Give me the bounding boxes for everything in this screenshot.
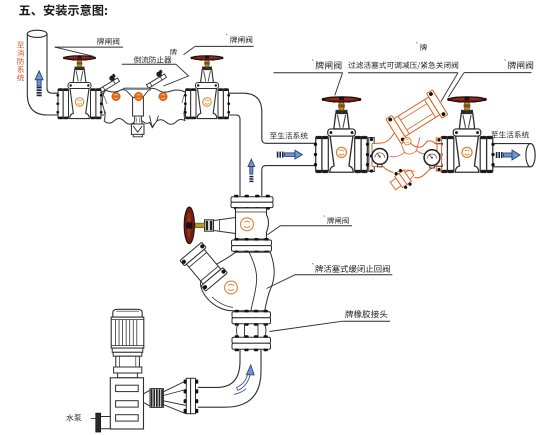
pipe: elbow to pump [198,350,261,408]
pipe: fire-system riser & elbow [27,34,59,115]
pump flange pair [186,378,190,413]
V5 bonnet cone [214,218,236,234]
label: 牌闸阀 (V3) [316,61,324,69]
pipe: fire line stubs [100,93,189,115]
pump outlet coupling [150,389,163,408]
label: 水泵 [66,414,73,421]
rubber joint bellows [237,324,267,337]
flow arrow up (riser) [35,71,43,96]
label: 至生活系统 (right) [491,132,498,138]
title text 五、安装示意图: [19,5,30,15]
pump spacer [116,356,140,367]
PRV drain fitting [387,164,418,194]
label: 牌闸阀 (V1) [97,38,104,45]
label: 牌活塞式缓闭止回阀 [315,265,323,273]
label: 牌闸阀 (V2) [230,36,237,43]
pump neck [118,373,138,378]
V5 logo [241,218,254,231]
flow arrow up (middle riser) [248,159,255,181]
PRV inner lines (orange) [382,137,430,173]
backflow preventer shading [104,95,186,114]
label: 牌橡胶接头 [345,310,353,318]
logo dot 1 [112,92,120,100]
test cock left [97,73,120,92]
V5 stem [196,223,205,227]
pipe: elbow down & riser to pump line [229,93,317,196]
label: 牌闸阀 (V5) [327,217,334,224]
pump band [114,367,142,373]
flow arrow right (outlet) [497,150,520,160]
backflow preventer body [102,88,186,127]
gate valve V4 [439,97,494,173]
label: 牌 倒流防止器 [170,49,177,56]
label: 过滤活塞式可调减压/紧急关闭阀 [348,62,355,69]
label: 至消防系统 (red, vertical) [17,42,24,48]
relief funnel [124,88,150,90]
relief bottom [133,134,142,136]
check valve body [200,252,274,311]
gate valve V2 [184,56,230,120]
V5 handwheel [184,207,194,244]
flow arrow right (branch) [278,150,303,159]
gate valve V1 [56,56,102,120]
gate valve V3 [314,97,369,173]
relief pipe [133,98,144,117]
check valve bonnet [180,242,227,291]
pump motor body [111,317,144,348]
pipe behind gauges [374,144,443,167]
label: 牌闸阀 (V4) [508,61,516,69]
relief valve box [131,124,144,134]
PRV inlet flange [369,138,374,172]
BFP flap [150,116,159,128]
pump motor cap [113,309,142,317]
relief neck [134,116,142,124]
PRV bonnet [386,90,448,144]
test cock right [144,69,167,88]
gate valve V5 bottom flange [232,240,272,246]
V5 gland [205,220,214,231]
PRV logo [404,138,411,145]
pressure reducing valve body (orange) [372,131,437,178]
logo dot 3 [159,92,167,100]
PRV outlet flange [436,138,441,171]
flange joint (top of V5) [231,197,273,202]
pipe: domestic outlet right [493,144,535,167]
pressure reducing valve body fill [372,131,437,178]
pressure gauge 2 [430,165,434,168]
pump outlet studs [163,381,186,414]
rubber joint upper pair [232,312,271,318]
flow arrow curved (pump outlet) [237,373,251,390]
logo dot 2 [134,92,142,100]
pressure gauge 1 [378,163,382,166]
label: 至生活系统 (branch) [270,133,277,139]
check valve logo [225,281,238,294]
pump outlet cone [144,390,151,406]
pump motor base rings [112,348,143,352]
pump inlet [96,413,101,432]
gate valve V5 body [236,208,269,239]
pump casing [110,378,143,429]
rubber joint lower pair [232,337,271,343]
